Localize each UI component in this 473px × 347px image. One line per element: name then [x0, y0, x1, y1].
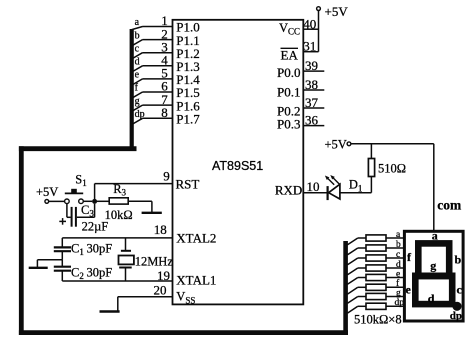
wire R to display a: [386, 237, 404, 239]
wire R3 to ground: [128, 201, 152, 213]
label C1 30pF: [71, 242, 112, 258]
pin number 10: [307, 179, 320, 194]
node label b: [135, 30, 140, 41]
pin number 18: [154, 222, 167, 237]
wire LED to resistor node: [340, 192, 372, 194]
svg-text:30pF: 30pF: [87, 242, 113, 256]
display decimal point dp: [452, 302, 461, 311]
wire C2 to XTAL1: [61, 271, 63, 281]
ground (crystal): [29, 267, 48, 269]
wire pin 37 P0.2: [303, 107, 324, 109]
display segment upper loop (a,f,b,g): [418, 243, 449, 276]
value label 510k x8: [354, 313, 402, 327]
display label b: [455, 253, 462, 267]
svg-text:38: 38: [305, 77, 318, 92]
svg-text:18: 18: [154, 222, 167, 237]
label S1: [75, 173, 86, 189]
wire segment b to pin 2: [132, 40, 173, 46]
svg-text:P0.0: P0.0: [277, 65, 300, 80]
svg-text:d: d: [135, 57, 140, 68]
wire junction to RST: [94, 184, 96, 202]
wire bus slant to R3 (c): [348, 258, 367, 265]
svg-text:g: g: [135, 96, 140, 107]
pin label P1.5: [176, 85, 199, 100]
wire R to display dp: [386, 305, 404, 307]
wire bus slant to R2 (b): [348, 248, 367, 255]
wire bus slant to R5 (e): [348, 278, 367, 285]
bus wire bottom horizontal: [19, 330, 348, 335]
label +5V reset: [36, 185, 58, 199]
value label 510ohm: [378, 162, 406, 176]
svg-text:a: a: [135, 17, 140, 28]
svg-text:P0.1: P0.1: [277, 85, 300, 100]
pin label P1.7: [176, 112, 200, 127]
node label d: [135, 57, 140, 68]
wire switch to junction: [83, 200, 92, 202]
wire segment a to pin 1: [132, 27, 173, 30]
node label dp: [135, 109, 145, 120]
resistor 510k c: [366, 255, 386, 261]
display DS1 body: [404, 231, 463, 321]
IC U1 part label AT89S51: [212, 159, 263, 173]
wire R to display f: [386, 286, 404, 288]
pin number 39: [305, 58, 318, 73]
svg-text:510Ω: 510Ω: [378, 162, 406, 176]
pin number 40: [303, 16, 316, 31]
segment pin label d: [396, 260, 401, 270]
wire pin 39 P0.0: [303, 70, 324, 72]
label C2 30pF: [71, 266, 112, 282]
pin label P1.2: [176, 46, 199, 61]
display label g: [430, 259, 436, 273]
wire pin 36 P0.3: [303, 125, 324, 127]
pin label RST: [176, 176, 200, 191]
segment pin label e: [396, 269, 400, 279]
label com: [437, 197, 462, 212]
wire C1 to ground junction: [61, 251, 63, 260]
wire junction to C2: [61, 260, 63, 267]
svg-text:c: c: [135, 43, 140, 54]
pin number 1: [161, 13, 168, 28]
display label a: [432, 229, 438, 243]
display label d: [428, 292, 435, 306]
pin label EA with overline: [281, 48, 299, 63]
terminal +5V reset: [45, 200, 49, 204]
switch S1 pushbutton: [65, 189, 84, 204]
svg-text:a: a: [432, 229, 438, 243]
wire switch to C3 left: [67, 204, 71, 218]
pin label P0.0: [277, 65, 300, 80]
pin number 38: [305, 77, 318, 92]
label R3: [113, 182, 126, 198]
svg-text:8: 8: [161, 105, 168, 120]
svg-text:AT89S51: AT89S51: [212, 159, 263, 173]
pin label P0.2: [277, 104, 300, 119]
wire +5V to switch: [49, 200, 65, 202]
svg-text:9: 9: [163, 168, 170, 183]
svg-text:d: d: [428, 292, 435, 306]
wire R to display e: [386, 277, 404, 279]
svg-text:+5V: +5V: [325, 4, 349, 19]
svg-text:c: c: [396, 250, 400, 260]
display label dp: [450, 310, 462, 322]
pin number 2: [161, 26, 168, 41]
pin number 31: [303, 39, 316, 54]
resistor 510k a: [366, 235, 386, 241]
segment pin label c: [396, 250, 400, 260]
resistor 510k f: [366, 284, 386, 290]
wire com vertical: [433, 144, 435, 231]
svg-text:XTAL2: XTAL2: [176, 230, 216, 245]
wire Vss pin 20: [118, 296, 173, 298]
svg-text:39: 39: [305, 58, 318, 73]
bus wire vertical (segment bus to P1 pins): [130, 29, 134, 151]
node label c: [135, 43, 140, 54]
pin label P1.1: [176, 33, 199, 48]
svg-text:36: 36: [305, 113, 319, 128]
terminal +5V mid: [347, 142, 351, 146]
capacitor C3 electrolytic 22uF: [72, 207, 76, 227]
pin number 6: [161, 79, 168, 94]
value label 12MHz: [135, 254, 174, 268]
label +5V mid: [324, 137, 346, 151]
bus wire horizontal upper-left: [19, 146, 137, 151]
resistor 510k g: [366, 293, 386, 299]
wire resistor to LED: [370, 177, 372, 193]
svg-text:e: e: [396, 269, 400, 279]
svg-text:510kΩ×8: 510kΩ×8: [354, 313, 402, 327]
svg-text:b: b: [396, 240, 401, 250]
svg-text:g: g: [396, 288, 401, 298]
pin number 5: [161, 66, 168, 81]
svg-text:10kΩ: 10kΩ: [105, 208, 133, 222]
capacitor C2 30pF: [54, 267, 71, 271]
resistor R3: [109, 198, 128, 204]
resistor 510k e: [366, 274, 386, 280]
resistor 510k d: [366, 265, 386, 271]
svg-text:b: b: [135, 30, 140, 41]
pin label P1.0: [176, 20, 199, 35]
pin number 36: [305, 113, 319, 128]
resistor 510ohm: [368, 159, 374, 177]
LED D1 emission arrow 1: [325, 176, 334, 185]
wire segment c to pin 3: [132, 53, 173, 59]
pin number 3: [161, 39, 168, 54]
pin label Vcc: [279, 21, 300, 37]
label C3: [81, 203, 94, 219]
pin number 8: [161, 105, 168, 120]
wire RXD pin 10: [303, 192, 327, 194]
svg-text:40: 40: [303, 16, 316, 31]
bus wire left vertical: [19, 146, 24, 335]
capacitor C1 30pF: [54, 247, 71, 251]
svg-text:12MHz: 12MHz: [135, 254, 174, 268]
wire bus slant to R4 (d): [348, 268, 367, 275]
segment pin label b: [396, 240, 401, 250]
svg-text:P0.3: P0.3: [277, 116, 300, 131]
pin label XTAL2: [176, 230, 216, 245]
ground (reset): [142, 212, 162, 214]
pin label XTAL1: [176, 272, 216, 287]
wire pin 38 P0.1: [303, 89, 324, 91]
wire XTAL2 to C1: [61, 238, 63, 248]
wire bus slant to R6 (f): [348, 287, 367, 294]
IC U1 AT89S51 microcontroller body: [173, 20, 304, 305]
wire junction to R3: [97, 200, 109, 202]
wire ground branch: [37, 260, 62, 268]
wire bus slant to R8 (dp): [348, 306, 367, 313]
svg-text:e: e: [406, 282, 412, 296]
svg-text:XTAL1: XTAL1: [176, 272, 216, 287]
svg-text:P1.7: P1.7: [176, 112, 200, 127]
pin number 7: [161, 92, 168, 107]
wire XTAL1 pin 19: [62, 280, 172, 282]
svg-text:20: 20: [154, 282, 167, 297]
ground (Vss): [100, 310, 120, 312]
wire segment e to pin 5: [132, 79, 173, 85]
pin number 37: [305, 95, 319, 110]
svg-text:d: d: [396, 260, 401, 270]
svg-text:30pF: 30pF: [87, 266, 113, 280]
resistor 510k b: [366, 245, 386, 251]
display label c: [457, 282, 463, 296]
wire bus slant to R7 (g): [348, 297, 367, 304]
node label e: [135, 70, 140, 81]
value label 10k: [105, 208, 133, 222]
crystal Y1 12MHz: [119, 251, 134, 268]
wire segment dp to pin 8: [132, 118, 173, 124]
svg-text:+5V: +5V: [36, 185, 58, 199]
svg-text:RXD: RXD: [275, 182, 302, 197]
segment pin label g: [396, 288, 401, 298]
pin label P0.1: [277, 85, 300, 100]
LED D1 cathode bar: [327, 186, 329, 200]
pin label P1.4: [176, 72, 200, 87]
segment pin label f: [396, 278, 400, 289]
node label f: [135, 83, 139, 94]
svg-text:com: com: [437, 197, 462, 212]
wire RST pin 9: [95, 183, 173, 185]
wire crystal bottom lead: [125, 268, 127, 282]
wire R to display d: [386, 267, 404, 269]
wire crystal top lead: [125, 238, 127, 251]
pin label P1.6: [176, 98, 200, 113]
svg-text:37: 37: [305, 95, 319, 110]
wire +5V rail to com: [351, 143, 434, 145]
display label e: [406, 282, 412, 296]
node label a: [135, 17, 140, 28]
LED D1 triangle: [329, 184, 340, 199]
wire segment f to pin 6: [132, 92, 173, 98]
svg-text:dp: dp: [395, 298, 405, 308]
wire +5V to pins 40/31: [318, 11, 320, 52]
display segment lower loop (g,e,c,d): [415, 276, 452, 304]
bus wire right vertical (to resistor bank): [343, 241, 348, 335]
wire segment d to pin 4: [132, 66, 173, 72]
wire segment g to pin 7: [132, 105, 173, 111]
terminal +5V top: [317, 7, 321, 11]
wire pin 31 EA: [303, 51, 318, 53]
pin label RXD: [275, 182, 302, 197]
segment pin label a: [396, 230, 401, 240]
wire XTAL2 pin 18: [62, 237, 172, 239]
node junction reset: [92, 199, 97, 204]
svg-text:EA: EA: [281, 48, 299, 63]
pin number 19: [157, 268, 170, 283]
svg-text:b: b: [455, 253, 462, 267]
svg-text:e: e: [135, 70, 140, 81]
svg-text:19: 19: [157, 268, 170, 283]
node label g: [135, 96, 140, 107]
wire R to display c: [386, 257, 404, 259]
wire R to display g: [386, 296, 404, 298]
svg-text:g: g: [430, 259, 436, 273]
svg-text:10: 10: [307, 179, 320, 194]
wire pin 40 Vcc: [303, 28, 318, 30]
svg-text:RST: RST: [176, 176, 200, 191]
wire R to display b: [386, 247, 404, 249]
wire +5V to resistor top: [370, 144, 372, 159]
pin label P1.3: [176, 59, 199, 74]
LED D1 emission arrow 2: [330, 175, 339, 184]
segment pin label dp: [395, 298, 405, 308]
polarity + of C3: [59, 218, 66, 225]
value label 22uF: [82, 219, 109, 233]
pin number 9: [163, 168, 170, 183]
resistor 510k dp: [366, 303, 386, 309]
wire C3 right to junction: [77, 204, 95, 218]
svg-text:31: 31: [303, 39, 316, 54]
svg-text:c: c: [457, 282, 463, 296]
wire bus slant to R1 (a): [348, 238, 367, 245]
display label f: [407, 250, 412, 264]
pin label Vss: [176, 290, 195, 306]
svg-text:+5V: +5V: [324, 137, 346, 151]
svg-text:dp: dp: [450, 310, 462, 322]
pin number 4: [161, 53, 168, 68]
wire Vss to ground: [117, 297, 119, 312]
label D1: [349, 178, 363, 194]
pin number 20: [154, 282, 167, 297]
label +5V top: [325, 4, 349, 19]
pin label P0.3: [277, 116, 300, 131]
svg-text:dp: dp: [135, 109, 145, 120]
